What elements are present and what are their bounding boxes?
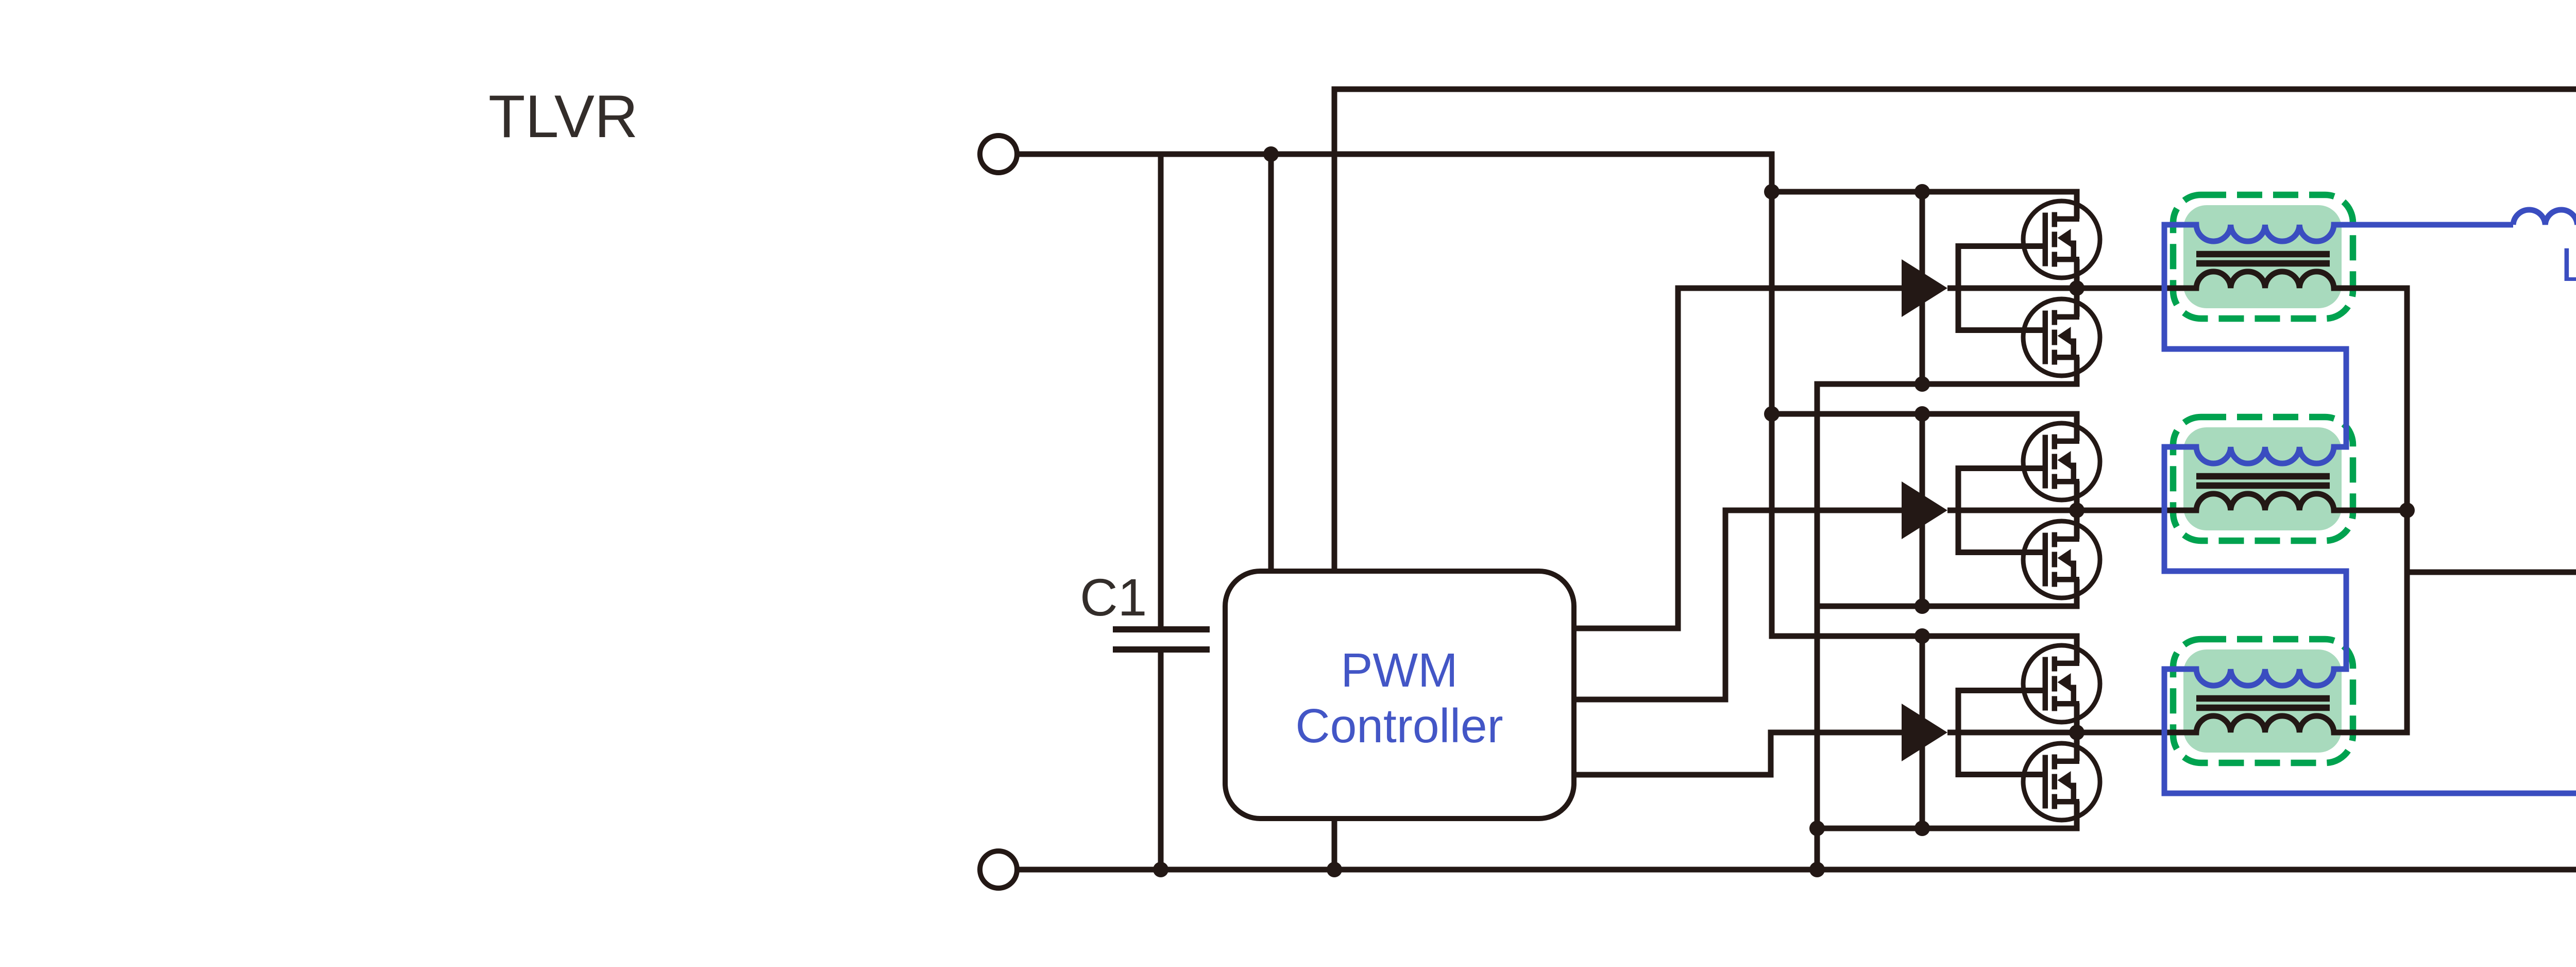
svg-text:PWM: PWM <box>1341 643 1458 697</box>
transistor Q3 high-side MOSFET <box>2023 423 2100 500</box>
gate driver A1 <box>1902 259 1947 317</box>
wire phase 2 drain rail <box>1772 411 2080 417</box>
wire Vout rail to output terminal <box>2407 570 2576 575</box>
node switch phase3 <box>2069 725 2084 740</box>
wire Q1 drain stub <box>2074 192 2080 219</box>
node PWM ground <box>1327 862 1342 877</box>
transformer T1 core <box>2196 254 2330 263</box>
transformer T3 primary winding (switch node to Vout) <box>1947 716 2410 732</box>
node switch phase1 <box>2069 280 2084 296</box>
wire PWM gate signal 3 <box>1574 732 1902 775</box>
wire driver A1 supply drop <box>1920 192 1925 384</box>
wire PWM gate signal 1 <box>1574 288 1902 628</box>
op-amp U1 PWM controller box <box>1225 571 1574 819</box>
node driver2 return <box>1914 598 1930 614</box>
transformer T2 primary winding (switch node to Vout) <box>1947 494 2410 510</box>
transformer T3 coupling region fill <box>2183 649 2342 753</box>
transformer T2 core <box>2196 476 2330 486</box>
node rail phase2 <box>1764 406 1780 422</box>
wire phase 3 low-side source return <box>1815 826 2080 831</box>
wire Q6 source stub <box>2074 802 2080 829</box>
wire input rail vertical feeding phase drain rails <box>1772 154 2077 636</box>
node driver3 return <box>1914 821 1930 836</box>
wire Q6 drain stub <box>2074 732 2080 761</box>
inductor LC compensation coil <box>2513 210 2576 225</box>
wire Q3 drain stub <box>2074 414 2080 441</box>
transistor Q4 low-side MOSFET <box>2023 521 2100 598</box>
wire C1 upper lead <box>1158 154 1164 629</box>
transistor Q1 high-side MOSFET <box>2023 201 2100 278</box>
wire gate split to Q1 and Q2 <box>1958 246 2043 330</box>
wire phase 2 low-side source return <box>1815 604 2080 609</box>
transistor Q2 low-side MOSFET <box>2023 299 2100 376</box>
transformer T1 primary winding (switch node to Vout) <box>1947 272 2410 288</box>
transformer T3 secondary winding <box>2162 669 2349 686</box>
wire secondary loop T1-T2 link <box>2164 225 2346 447</box>
wire C1 lower lead <box>1158 649 1164 870</box>
wire Q3 source stub <box>2074 481 2080 511</box>
svg-text:TLVR: TLVR <box>488 82 638 150</box>
input terminal negative <box>980 851 1017 888</box>
gate driver A3 <box>1902 704 1947 761</box>
wire Q1 source stub <box>2074 259 2080 289</box>
wire secondary loop return from LC to T3 <box>2164 225 2576 793</box>
transformer T2 dashed boundary <box>2173 417 2353 541</box>
wire secondary loop T2-T3 link <box>2164 447 2346 669</box>
wire Q2 source stub <box>2074 357 2080 385</box>
node driver1 return <box>1914 376 1930 392</box>
wire Q2 drain stub <box>2074 288 2080 317</box>
label PWM Controller <box>1295 643 1503 753</box>
transistor Q5 high-side MOSFET <box>2023 645 2100 722</box>
wire phase 1 drain rail <box>1772 189 2080 195</box>
wire gate split to Q5 and Q6 <box>1958 691 2043 775</box>
transformer T3 core <box>2196 698 2330 708</box>
wire phase 1 low-side source return <box>1815 381 2080 387</box>
node input to PWM tap <box>1263 146 1279 162</box>
node switch phase2 <box>2069 503 2084 518</box>
node rail phase1 <box>1764 184 1780 199</box>
node C1 ground <box>1153 862 1168 877</box>
wire driver A3 supply drop <box>1920 636 1925 828</box>
node chain to ground <box>1809 862 1825 877</box>
wire phase 3 drain rail <box>1772 633 2080 639</box>
svg-text:Controller: Controller <box>1295 699 1503 753</box>
label LC inductor <box>2561 239 2576 304</box>
transformer T2 coupling region fill <box>2183 427 2342 530</box>
wire ground chain for low-side sources <box>1815 384 1820 870</box>
node driver2 supply <box>1914 406 1930 422</box>
wire PWM gate signal 2 <box>1574 510 1902 699</box>
wire Q5 source stub <box>2074 704 2080 733</box>
transformer T2 secondary winding <box>2162 447 2349 463</box>
capacitor C1 plates <box>1113 629 1210 649</box>
wire input rail from Vin+ terminal to phase column <box>1017 152 1775 157</box>
node driver1 supply <box>1914 184 1930 199</box>
transformer T1 dashed boundary <box>2173 195 2353 319</box>
wire phase primaries to Vout collector vertical <box>2404 288 2410 732</box>
node driver3 supply <box>1914 628 1930 644</box>
input terminal positive <box>980 136 1017 173</box>
transistor Q6 low-side MOSFET <box>2023 743 2100 820</box>
transformer T1 secondary winding <box>2162 225 2514 241</box>
transformer T1 coupling region fill <box>2183 205 2342 308</box>
wire PWM input tap <box>1268 154 1274 571</box>
wire Q4 source stub <box>2074 579 2080 607</box>
wire feedback from PWM top to Vout sense (top loop) <box>1334 89 2576 698</box>
svg-text:C1: C1 <box>1080 568 1147 627</box>
transformer T3 dashed boundary <box>2173 639 2353 763</box>
wire Q4 drain stub <box>2074 510 2080 539</box>
wire ground rail <box>1017 867 2576 873</box>
wire driver A2 supply drop <box>1920 414 1925 606</box>
gate driver A2 <box>1902 481 1947 539</box>
wire PWM ground lead <box>1332 819 1337 870</box>
node chain to phase3 return <box>1809 821 1825 836</box>
wire Q5 drain stub <box>2074 636 2080 663</box>
wire gate split to Q3 and Q4 <box>1958 469 2043 553</box>
svg-text:L: L <box>2561 239 2576 291</box>
node primary2 to Vout <box>2399 503 2415 518</box>
